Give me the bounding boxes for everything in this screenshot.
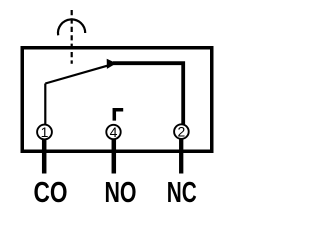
svg-text:1: 1 (41, 124, 49, 140)
terminal circle 2 (174, 124, 189, 139)
NO fixed contact (114, 110, 123, 121)
svg-text:2: 2 (178, 124, 186, 140)
common lever arm (45, 65, 110, 84)
NC contact bar (113, 63, 183, 125)
lever arrowhead (107, 59, 117, 69)
svg-text:NC: NC (167, 177, 197, 209)
rotation arc (58, 19, 85, 35)
svg-text:4: 4 (110, 124, 118, 140)
NO terminal lead (112, 139, 117, 174)
svg-text:CO: CO (34, 177, 68, 209)
switch body outline (22, 48, 212, 152)
NC terminal lead (179, 138, 183, 173)
wire: common lever vertical (44, 84, 46, 126)
svg-text:NO: NO (105, 177, 137, 209)
actuator axis (dashed) (71, 10, 73, 64)
CO terminal lead (42, 139, 47, 174)
terminal circle 1 (37, 125, 52, 140)
terminal circle 4 (106, 125, 120, 139)
